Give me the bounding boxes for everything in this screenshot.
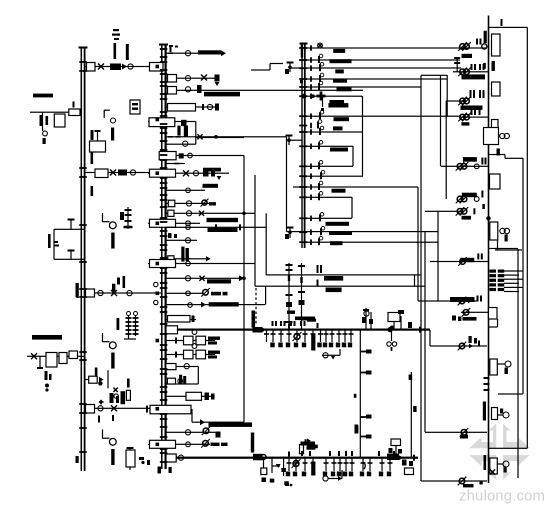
- feeder M1 circle: [185, 51, 190, 56]
- aux label bar: [33, 94, 53, 98]
- feeder M5 loop circle: [183, 141, 188, 146]
- LVB tie circle: [178, 455, 183, 460]
- LV bus A: [166, 329, 430, 331]
- cluster x: [113, 388, 118, 399]
- wire y242: [306, 242, 438, 243]
- wire y116: [306, 116, 461, 117]
- wire y137 feeder to riser: [196, 137, 244, 138]
- feeder R4 comps: [458, 113, 488, 122]
- LVA upper cluster2: [388, 310, 404, 330]
- feeder M5 loop bars: [177, 126, 188, 137]
- tick left busIII y81: [300, 80, 303, 84]
- riser x362: [362, 96, 363, 177]
- LVB big bar: [311, 462, 315, 476]
- incomer1 wire: [84, 66, 161, 67]
- wire y158 stub: [505, 158, 523, 159]
- busIV reactor box1: [492, 34, 501, 56]
- bus III row y176.2: [299, 170, 325, 179]
- feeder M24 wire: [166, 396, 212, 397]
- bus III row y79: [299, 73, 347, 83]
- feeder M12 comps: [186, 211, 245, 216]
- bus IV top tick: [501, 19, 503, 26]
- motor M3 vbar: [111, 449, 114, 465]
- wire y67: [290, 67, 461, 68]
- feeder M25 wire: [166, 432, 217, 433]
- LVB riser 302 comps: [300, 438, 318, 453]
- feeder M11: [166, 201, 210, 206]
- feeder M6 wire: [166, 136, 287, 137]
- LVA big bar: [311, 334, 315, 351]
- T comp y232: [285, 227, 294, 240]
- feeder M1 wire: [166, 53, 222, 54]
- bus III row y125.5: [299, 120, 342, 131]
- aux L-wire: [104, 110, 110, 118]
- bus II (mid 6kV bus): [161, 44, 167, 469]
- feeder M4 wire: [166, 106, 218, 107]
- feeder M1 ticks: [168, 46, 173, 54]
- busIV box10: [490, 458, 498, 474]
- incomer2 circle: [98, 406, 103, 411]
- LVA upper ticks: [288, 317, 319, 329]
- feeder M19 comps: [186, 288, 210, 297]
- y286 comps: [317, 280, 342, 293]
- wire y101: [446, 100, 463, 101]
- T-left marks: [45, 371, 52, 392]
- LVA comb labels: [270, 343, 352, 348]
- busIV bar pre10: [484, 455, 487, 470]
- aux box main: [69, 109, 80, 116]
- bus III row y218.3: [299, 213, 349, 226]
- feeder M11 box: [168, 200, 175, 207]
- PT stub1: [68, 219, 75, 230]
- feeder M26 comps: [186, 439, 210, 448]
- busIV reactor box6: [490, 222, 498, 240]
- busIV box4: [484, 128, 499, 145]
- incomer2m label: [209, 422, 253, 427]
- incomer1 CT box: [87, 63, 96, 72]
- motor M1 circle: [109, 222, 116, 229]
- feeder M8a wire: [176, 155, 244, 156]
- motor M1 L-wire: [102, 213, 110, 222]
- feeder M12 label: [207, 218, 239, 222]
- feeder M20 label: [209, 302, 239, 306]
- riser x438: [437, 211, 438, 301]
- feeder M25 comps: [185, 427, 220, 438]
- feeder M20 comps: [188, 302, 206, 308]
- incomer1 small text: [112, 29, 120, 40]
- wire y250 loop: [495, 249, 522, 250]
- wire y432: [425, 432, 487, 433]
- feeder M8b: [166, 163, 185, 165]
- LVA tie box: [166, 326, 178, 334]
- bus III row y116.2: [299, 110, 349, 121]
- wire y301: [418, 300, 477, 301]
- wire y90: [168, 90, 363, 91]
- feeder R7 label: [462, 216, 472, 220]
- aux vbar: [111, 128, 114, 141]
- feeder y261 bar: [460, 258, 474, 262]
- feeder M26 box: [150, 440, 176, 448]
- incomer1 circle: [128, 64, 133, 69]
- wire y27 top: [489, 27, 528, 28]
- wire y46: [306, 47, 487, 48]
- cluster plus: [99, 400, 104, 405]
- aux stem marks: [91, 130, 94, 140]
- feeder M24 comps: [205, 393, 215, 401]
- feeder M3 label long: [204, 92, 240, 97]
- riser x266: [266, 213, 267, 275]
- feeder M22 circle: [184, 364, 189, 369]
- incomer2 marks: [110, 393, 120, 403]
- feeder R5 upper marks: [463, 157, 487, 164]
- incomer2m drop: [191, 409, 192, 422]
- riser x446: [446, 101, 447, 199]
- feeder M14 comps: [186, 224, 241, 230]
- harness x527: [527, 28, 528, 449]
- feeder M22 inner bars: [179, 375, 186, 385]
- feeder R1 comps: [458, 42, 487, 51]
- watermark text: [459, 489, 545, 505]
- busIV box7: [489, 308, 498, 320]
- motor M3 L-wire: [102, 430, 110, 439]
- wire y187 long: [293, 186, 418, 187]
- incomer2m arrow: [200, 419, 205, 425]
- bus III row y60: [299, 54, 351, 63]
- riser x255: [254, 175, 255, 286]
- feeder L3 box: [86, 289, 95, 297]
- x360 bottom specks: [355, 426, 358, 434]
- terminal block wires: [504, 270, 523, 292]
- motor M3 circle: [109, 438, 116, 445]
- busIV box10 x: [490, 469, 495, 474]
- riser x425: [424, 232, 425, 432]
- feeder L4 box: [89, 376, 98, 383]
- incomer1 arrow: [122, 64, 127, 70]
- feeder M26 label: [211, 443, 228, 446]
- feeder M22 loop: [166, 367, 199, 385]
- feeder M9 box: [150, 169, 176, 177]
- LVA comb drops: [264, 330, 354, 342]
- busIV reactor box2: [492, 82, 501, 96]
- PT small text: [54, 241, 59, 247]
- LVA right comps: [387, 322, 421, 351]
- feeder M6 ticks: [168, 136, 181, 138]
- T-left x: [31, 353, 37, 359]
- wire y232 long: [287, 231, 439, 232]
- bus I (left 6kV bus): [81, 47, 86, 471]
- incomer2 box: [86, 405, 95, 414]
- feeder R3 comps: [458, 97, 471, 106]
- aux wire y112: [30, 112, 82, 113]
- riser x244: [243, 156, 244, 423]
- wire y154: [489, 154, 506, 158]
- aux drop1: [42, 112, 47, 144]
- busIV box6 circle: [500, 228, 510, 241]
- feeder M18 label: [207, 279, 231, 283]
- riser x265b: [265, 286, 266, 304]
- wire y261: [430, 261, 488, 262]
- LVB upper labels: [301, 442, 316, 450]
- LVA upper tick pairs: [272, 321, 306, 326]
- drop x322: [321, 96, 324, 111]
- LVB sub circle: [323, 470, 343, 481]
- feeder M15 marks: [168, 233, 177, 238]
- LVA sub wire: [322, 349, 341, 360]
- bus I captions: [76, 283, 79, 298]
- T-left stub: [37, 356, 43, 369]
- feeder M10: [166, 188, 205, 193]
- bus III top tick: [300, 43, 308, 45]
- riser x457: [457, 57, 458, 72]
- x360 mid bar: [354, 394, 372, 439]
- feeder M5 loop: [166, 122, 196, 145]
- wire y70 jog: [251, 63, 283, 71]
- bus III row y187: [299, 181, 345, 193]
- T drop labels: [287, 311, 316, 322]
- LVB comb labels: [286, 472, 391, 477]
- feeder L2 box: [95, 169, 108, 178]
- feeder M9 wire: [148, 173, 229, 174]
- incomer1 disconnector: [98, 64, 104, 70]
- aux bottom specks: [91, 142, 105, 145]
- wire y481: [421, 480, 487, 481]
- feeder R4 label: [461, 122, 469, 125]
- LVA dashed riser: [255, 288, 257, 324]
- feeder M8a blob: [179, 153, 193, 158]
- bus III row y96.2: [299, 92, 344, 105]
- wire y448: [489, 448, 528, 449]
- feeder L3 circle2: [127, 291, 132, 296]
- LVA incomer vtext: [252, 311, 256, 328]
- aux box right: [130, 100, 140, 114]
- feeder R8 comps: [458, 297, 472, 306]
- incomer2m comps: [146, 406, 148, 413]
- busIV reactor box8: [490, 359, 498, 375]
- feeder M1 specks: [169, 45, 178, 48]
- LVB deep drop 3: [281, 458, 288, 486]
- feeder M18 comps: [185, 275, 244, 281]
- busIV box9 circle: [498, 409, 510, 419]
- wire y422: [192, 422, 244, 423]
- busIV box4 circle: [499, 133, 510, 138]
- incomer2 x: [111, 405, 117, 411]
- LVB comb drops: [287, 458, 393, 471]
- wire y346: [430, 345, 487, 346]
- feeder M2 circle: [185, 76, 190, 81]
- bus I bottom-left tick: [76, 456, 79, 463]
- cap chain 3: [126, 447, 135, 470]
- feeder L2 wire: [84, 172, 161, 173]
- wire y166: [306, 166, 353, 167]
- feeder M4 box: [168, 104, 196, 112]
- feeder R11 comps: [460, 428, 469, 439]
- LVA upper cluster: [362, 308, 373, 330]
- feeder M3 box: [168, 87, 177, 95]
- busIV box8 circle: [497, 361, 511, 374]
- LVB right comps: [402, 455, 415, 475]
- bus III row y146.3: [299, 141, 348, 152]
- wire y80: [306, 78, 447, 79]
- feeder M14 label: [208, 228, 238, 232]
- riser x286: [286, 137, 287, 232]
- harness x522: [522, 158, 523, 394]
- aux box tick: [73, 102, 75, 108]
- mid vtext bars: [181, 247, 189, 262]
- feeder M10 label: [203, 184, 219, 188]
- LVB deep drop 1: [261, 458, 267, 482]
- cluster bar C: [127, 379, 130, 388]
- feeder M11 comps: [201, 199, 216, 207]
- feeder y261 circle: [458, 257, 467, 266]
- cluster box B: [126, 390, 130, 400]
- feeder M22 wire: [166, 366, 198, 367]
- busIV junction: [486, 216, 490, 220]
- cap chain 2: [117, 312, 139, 340]
- bus III row y87: [299, 81, 351, 91]
- feeder M5 blob: [181, 120, 187, 126]
- feeder M24 box: [186, 392, 202, 400]
- feeder L4 circle: [98, 381, 102, 385]
- x414 side bar: [409, 375, 417, 413]
- LVB upper cluster: [389, 439, 403, 458]
- T drop x289: [286, 263, 293, 330]
- busIV reactor box3: [492, 120, 499, 131]
- T-left box2: [59, 353, 67, 364]
- feeder M17 wire: [148, 263, 255, 264]
- wire y197: [306, 197, 352, 198]
- loop v352b: [351, 197, 352, 218]
- T-left wire: [27, 356, 84, 357]
- wire y75 stub: [421, 75, 447, 76]
- feeder M15: [166, 238, 197, 243]
- wire y394 corner: [498, 393, 523, 394]
- T comp y140: [286, 135, 293, 146]
- loop v353a: [352, 146, 353, 166]
- busIV loop right: [497, 240, 498, 250]
- feeder L2 circle: [130, 170, 135, 175]
- cluster bars A: [121, 391, 126, 404]
- bus I top tick: [79, 47, 88, 49]
- feeder R6 comps: [456, 195, 479, 204]
- feeder M1 arrow: [221, 50, 226, 56]
- feeder M3 circle: [185, 87, 190, 92]
- bus II left stub circles: [154, 282, 158, 304]
- LVB left specks: [139, 457, 150, 465]
- LVB upper ticks: [288, 451, 395, 457]
- wire y176: [302, 176, 363, 177]
- motor M1 vbar: [111, 233, 114, 249]
- busIV box9b: [492, 408, 498, 420]
- feeder M18 wire: [166, 278, 244, 279]
- feeder R9 comps: [461, 308, 488, 317]
- feeder L3 vtext: [76, 276, 126, 297]
- feeder R2 upper marks: [471, 64, 485, 70]
- feeder M12 box: [168, 210, 174, 216]
- feeder M21 box: [168, 316, 191, 323]
- feeder M2 box: [168, 75, 177, 83]
- feeder M2 x: [201, 75, 207, 81]
- feeder M2 wire: [166, 78, 218, 79]
- bus III row y232.2: [299, 226, 352, 235]
- feeder R7 comps: [456, 207, 476, 216]
- feeder M2 mark: [215, 75, 220, 87]
- feeder M18 dot: [242, 277, 246, 281]
- LVA sub box row 2: [166, 344, 220, 359]
- wire y96: [306, 96, 362, 97]
- feeder L2 upper box: [90, 130, 106, 152]
- aux box below: [54, 114, 65, 127]
- wire y275: [266, 274, 421, 275]
- feeder L3 wire: [84, 292, 161, 293]
- feeder L3 circle: [98, 290, 103, 295]
- feeder L4 wire: [84, 379, 89, 380]
- feeder M17 comps: [186, 261, 191, 266]
- feeder R12 comps: [458, 477, 474, 488]
- incomer1 box2: [150, 63, 164, 72]
- bus III row y68.2: [299, 62, 344, 73]
- harness x518: [517, 249, 518, 478]
- incomer2 ticks: [98, 415, 114, 423]
- busIV box7 loop: [489, 319, 499, 328]
- feeder R1 upper marks: [476, 39, 482, 45]
- terminal block: [490, 270, 505, 292]
- watermark logo: [462, 417, 538, 487]
- riser x418: [417, 187, 418, 301]
- feeder M6 comps: [197, 134, 217, 139]
- feeder M13 comps: [186, 221, 191, 226]
- bus III (right-mid 10kV bus): [301, 43, 306, 130]
- feeder M22 box: [166, 364, 176, 370]
- busIV ticks below: [484, 377, 490, 391]
- svg-text:zhulong.com: zhulong.com: [459, 489, 545, 505]
- bus III row y242.2: [299, 236, 342, 245]
- T-left box1: [46, 353, 57, 368]
- bus II top tick: [159, 44, 168, 46]
- wire y59: [306, 59, 460, 60]
- feeder M9 label: [203, 168, 221, 188]
- feeder R4 upper marks: [471, 109, 481, 115]
- feeder M13 box: [150, 219, 176, 227]
- feeder M19 label: [211, 292, 228, 296]
- LV bus B: [166, 457, 418, 459]
- feeder M21 comps: [192, 316, 195, 323]
- motor M2 circle: [109, 342, 116, 349]
- feeder M5 box: [149, 118, 175, 127]
- LVA x360 side ticks: [361, 350, 372, 375]
- PT label vtext: [48, 234, 51, 248]
- riser x421: [420, 75, 421, 481]
- T-left label bar: [32, 335, 62, 340]
- bus II hash ticks: [160, 48, 168, 463]
- motor M2 L-wire: [102, 333, 110, 342]
- feeder R10 comps: [458, 342, 473, 351]
- wire y132: [306, 131, 363, 132]
- feeder L2 blob: [118, 170, 127, 176]
- feeder M23: [167, 378, 182, 384]
- feeder R6 bars: [462, 191, 485, 210]
- riser x441: [440, 75, 441, 166]
- riser x360 (LV tie): [360, 330, 361, 458]
- riser x447: [447, 75, 448, 116]
- y275 comps: [317, 265, 344, 281]
- PT loop wire: [53, 229, 84, 260]
- LVB deep drop 2: [270, 458, 281, 483]
- LVB incomer vtext: [251, 433, 254, 453]
- LVB tie box: [166, 454, 176, 462]
- feeder M13 wire: [148, 223, 200, 224]
- wire y304: [166, 304, 265, 305]
- feeder R10 ticks: [469, 336, 481, 346]
